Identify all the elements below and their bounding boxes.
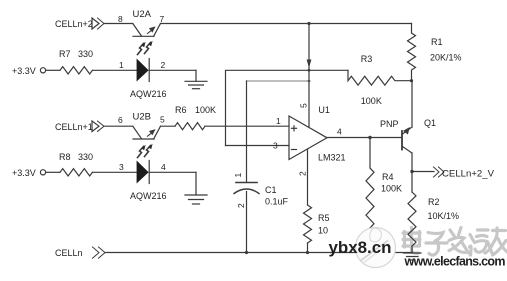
wire top rail left segment	[104, 23, 133, 25]
svg-text:100K: 100K	[361, 96, 382, 106]
svg-text:20K/1%: 20K/1%	[430, 53, 462, 63]
svg-text:2: 2	[298, 171, 308, 176]
resistor R3	[348, 70, 412, 85]
svg-text:ybx8.cn: ybx8.cn	[329, 238, 392, 257]
svg-text:R4: R4	[382, 172, 394, 182]
wire C1 bypass branch	[247, 80, 310, 82]
svg-text:R3: R3	[361, 54, 373, 64]
resistor R1	[408, 24, 416, 82]
svg-text:8: 8	[118, 14, 123, 24]
svg-text:10K/1%: 10K/1%	[428, 211, 460, 221]
svg-text:PNP: PNP	[380, 119, 399, 129]
svg-text:www.elecfans.com: www.elecfans.com	[404, 255, 506, 269]
wire bottom rail	[105, 252, 412, 254]
photo arrows U2A	[138, 41, 153, 55]
svg-text:R6100K: R6100K	[175, 105, 216, 115]
LED D2	[137, 161, 196, 184]
ground U2A LED	[185, 70, 207, 88]
watermark elecfans characters	[403, 228, 507, 256]
terminal +3.3V row2	[40, 170, 45, 175]
svg-text:+3.3V: +3.3V	[12, 66, 36, 76]
optocoupler switch U2A	[133, 24, 161, 37]
svg-text:2: 2	[236, 203, 246, 208]
resistor R2	[408, 172, 416, 254]
LED D1	[137, 59, 196, 82]
node junction R4 top	[368, 136, 371, 139]
svg-text:4: 4	[161, 162, 166, 172]
node junction R1 R3 emitter	[410, 79, 413, 82]
ground R2	[404, 253, 422, 260]
svg-text:+3.3V: +3.3V	[12, 168, 36, 178]
svg-text:AQW216: AQW216	[130, 191, 167, 201]
node junction R5 rail	[306, 251, 309, 254]
optocoupler switch U2B	[133, 126, 175, 139]
wire C1 top lead	[246, 81, 248, 182]
ground U2B LED	[185, 172, 207, 204]
svg-text:R7330: R7330	[59, 49, 93, 59]
svg-text:R5: R5	[318, 213, 330, 223]
svg-text:LM321: LM321	[318, 153, 346, 163]
node junction output	[410, 170, 413, 173]
connector CELLn+2	[92, 18, 104, 29]
capacitor C1	[234, 183, 259, 253]
svg-text:5: 5	[160, 115, 165, 125]
svg-text:7: 7	[160, 14, 165, 24]
op-amp U1	[226, 116, 328, 160]
svg-text:100K: 100K	[381, 184, 402, 194]
resistor R6	[175, 123, 289, 130]
svg-text:0.1uF: 0.1uF	[265, 197, 289, 207]
svg-text:U1: U1	[318, 105, 330, 115]
svg-text:2: 2	[161, 60, 166, 70]
svg-text:U2B: U2B	[133, 112, 151, 123]
svg-text:6: 6	[118, 115, 123, 125]
svg-text:R2: R2	[428, 197, 440, 207]
wire op-amp output to base	[327, 137, 402, 139]
resistor R8	[46, 169, 137, 176]
node junction top rail	[307, 22, 310, 25]
photo arrows U2B	[138, 144, 153, 158]
watermark ybx8 logo circle	[356, 228, 396, 268]
resistor R4	[366, 138, 374, 253]
wire feedback from R3 to inverting input	[226, 70, 349, 145]
svg-text:CELLn+1: CELLn+1	[55, 122, 93, 132]
svg-text:CELLn+2_V: CELLn+2_V	[442, 169, 494, 179]
terminal +3.3V row1	[40, 68, 45, 73]
svg-text:CELLn+2: CELLn+2	[55, 19, 93, 29]
svg-text:1: 1	[119, 60, 124, 70]
svg-text:3: 3	[119, 162, 124, 172]
wire op-amp supply vertical	[308, 24, 310, 127]
svg-text:Q1: Q1	[424, 118, 436, 128]
connector CELLn	[93, 247, 106, 258]
svg-text:5: 5	[299, 103, 309, 108]
connector CELLn+1	[92, 121, 133, 132]
svg-text:CELLn: CELLn	[55, 248, 83, 258]
arrow on supply wire	[307, 60, 312, 69]
wire top rail right segment	[161, 23, 412, 25]
svg-text:C1: C1	[265, 185, 277, 195]
svg-text:3: 3	[273, 141, 278, 151]
svg-text:R1: R1	[431, 37, 443, 47]
transistor Q1	[402, 81, 412, 172]
node junction C1 rail	[245, 251, 248, 254]
resistor R7	[46, 67, 137, 74]
node junction bypass to pin 5	[308, 80, 311, 83]
connector CELLn+2_V	[434, 167, 445, 177]
svg-text:R8330: R8330	[59, 152, 93, 162]
svg-text:10: 10	[318, 226, 328, 236]
wire output	[412, 171, 434, 173]
svg-text:4: 4	[337, 127, 342, 137]
wire op-amp V- pin2 / resistor R5	[304, 149, 312, 253]
svg-text:1: 1	[233, 173, 243, 178]
svg-text:1: 1	[276, 116, 281, 126]
node junction supply crossing	[308, 69, 311, 72]
svg-text:U2A: U2A	[133, 9, 152, 20]
svg-text:AQW216: AQW216	[130, 89, 167, 99]
